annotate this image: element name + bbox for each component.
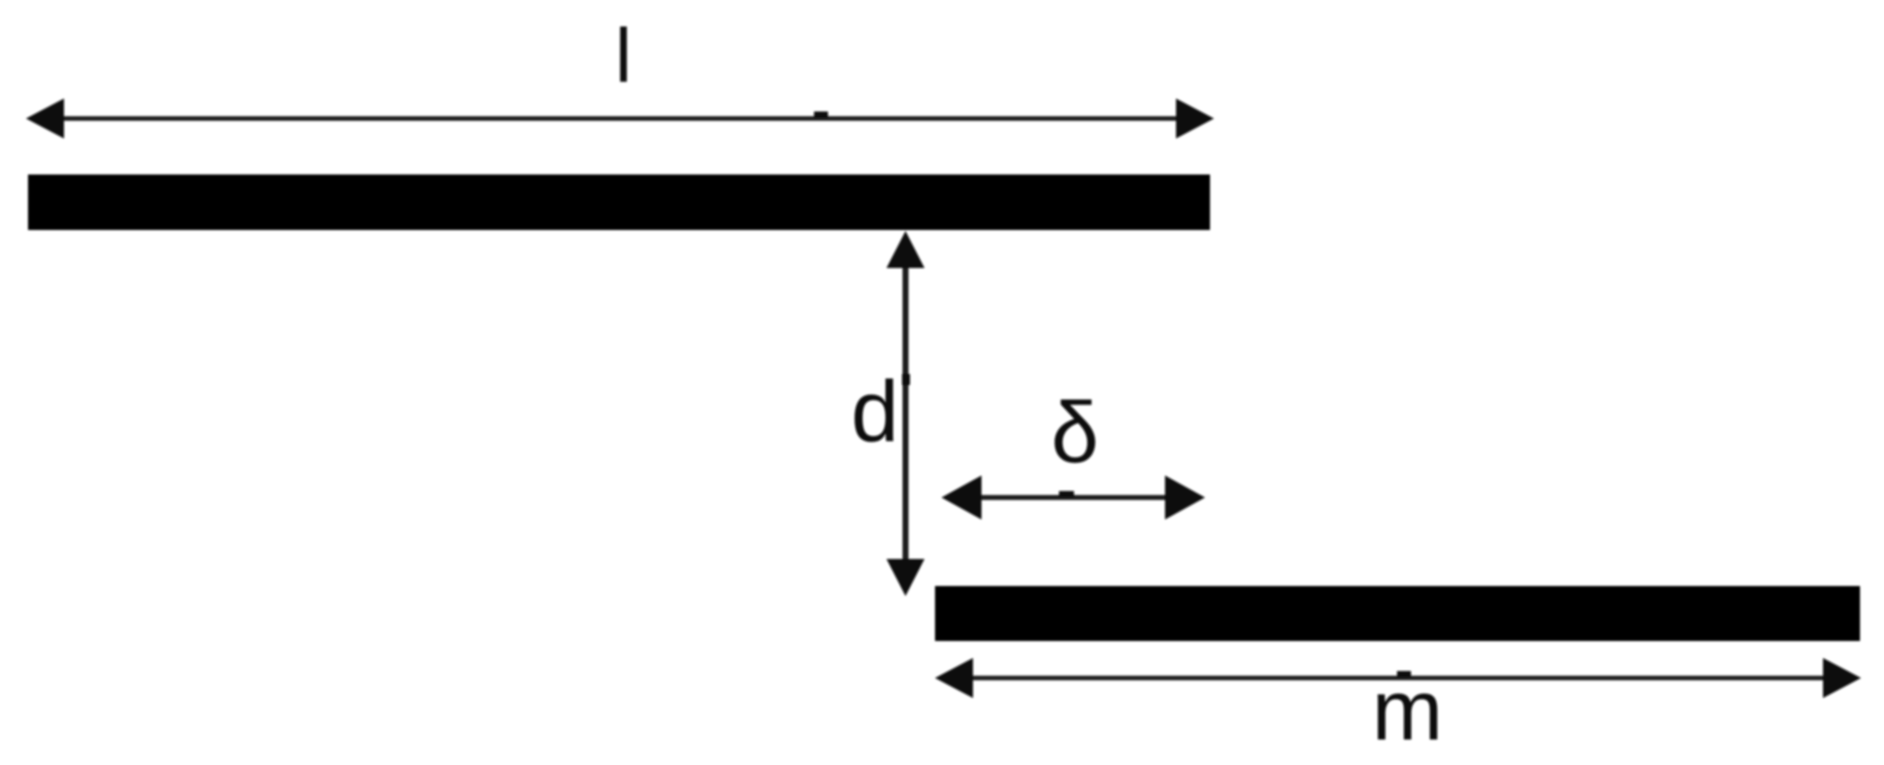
dimension arrow delta (double-headed, horizontal, offset)	[942, 476, 1206, 520]
dimension arrow l (double-headed, horizontal, top)	[26, 99, 1214, 139]
dimension arrow d (double-headed, vertical, gap between plates)	[887, 231, 925, 596]
top plate (bar of length l)	[28, 175, 1210, 231]
dimension arrow m (double-headed, horizontal, bottom)	[935, 658, 1861, 698]
midpoint tick on m line	[1397, 671, 1411, 677]
svg-text:m: m	[1372, 664, 1443, 759]
bottom plate (bar of length m)	[935, 586, 1860, 641]
svg-text:d: d	[851, 364, 899, 460]
midpoint tick on l line	[814, 112, 828, 118]
svg-text:l: l	[615, 14, 632, 99]
svg-text:δ: δ	[1051, 385, 1099, 481]
midpoint tick on delta line	[1059, 491, 1074, 497]
midpoint tick on d line	[902, 374, 910, 385]
